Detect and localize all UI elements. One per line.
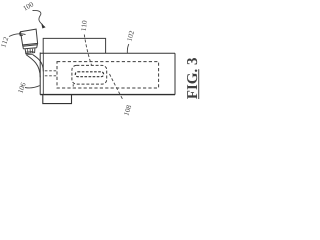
leader 112 (9, 34, 26, 37)
label 108 (124, 105, 132, 116)
cord arc inner (33, 55, 43, 72)
leader 102 (127, 44, 128, 53)
cord arc outer (26, 55, 40, 77)
plug P (element 112) (20, 29, 38, 53)
dashed slot band (element 110) (75, 72, 103, 77)
plug bottom junction lines (26, 51, 34, 54)
main body outline 102 (40, 53, 175, 95)
label 112 (1, 37, 9, 48)
leader 106 (25, 86, 40, 88)
figure title FIG. 3 (187, 58, 199, 99)
bottom-left pedestal (43, 95, 72, 104)
leader 110 dashed (84, 35, 91, 66)
plug cup body (21, 29, 38, 45)
top housing rectangle (43, 38, 105, 53)
small wall dashes (45, 71, 57, 76)
plug rim lip (20, 32, 23, 36)
label 102 (127, 31, 134, 42)
plug prong block (25, 48, 35, 53)
plug collar (23, 45, 38, 47)
prong hatching (28, 49, 33, 54)
leader arrow for 100 (33, 10, 43, 24)
dashed rounded component box (72, 65, 107, 84)
label 106 (18, 82, 26, 93)
label 110 (81, 20, 87, 30)
inner left wall line (42, 53, 44, 94)
connector dash below box (72, 84, 74, 88)
leader 108 dashed (110, 74, 124, 101)
dashed PCB rectangle (57, 62, 159, 88)
label 100 (23, 2, 34, 11)
